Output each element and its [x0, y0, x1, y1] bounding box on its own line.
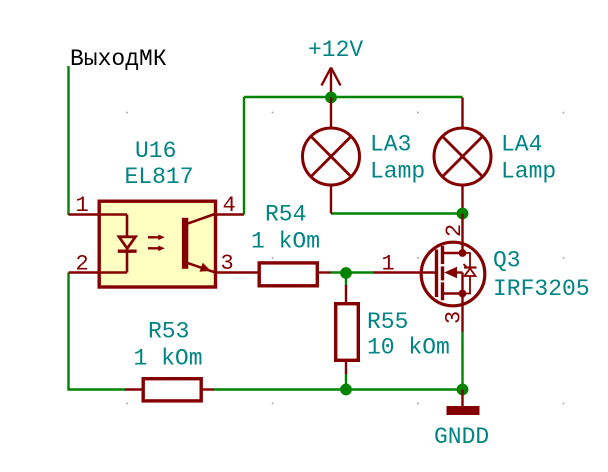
- U16 coupling arrow 2: [148, 246, 165, 252]
- resistor R54: [259, 263, 317, 286]
- U16 pin 4: [215, 213, 244, 215]
- svg-text:3: 3: [221, 251, 234, 276]
- optocoupler U16 body: [99, 201, 215, 287]
- Q3 gate pin: [374, 271, 437, 273]
- U16 pin 2: [69, 271, 128, 273]
- Q3 body diode: [463, 253, 477, 294]
- svg-text:1: 1: [76, 193, 89, 218]
- lamp LA4: [434, 128, 491, 185]
- U16 LED triangle: [119, 237, 136, 249]
- svg-text:Q3: Q3: [493, 248, 521, 274]
- lamp LA3 pins: [330, 98, 332, 129]
- svg-text:U16: U16: [135, 138, 176, 164]
- wire R54 to gate: [330, 271, 374, 273]
- resistor R53: [143, 379, 201, 401]
- svg-text:IRF3205: IRF3205: [493, 276, 590, 302]
- +12V power symbol: [322, 68, 341, 98]
- svg-text:Lamp: Lamp: [501, 159, 556, 185]
- U16 pin 3: [215, 271, 258, 273]
- transistor Q3 circle: [421, 242, 485, 306]
- R55 bottom pin: [345, 361, 347, 374]
- svg-text:R53: R53: [148, 319, 189, 345]
- Q3 source arrow: [444, 267, 457, 278]
- R53 left pin: [125, 388, 142, 390]
- junction at +12V: [325, 92, 337, 104]
- svg-text:R54: R54: [265, 202, 306, 228]
- Q3 source tap: [444, 292, 463, 294]
- R54 right pin: [318, 271, 331, 273]
- svg-text:EL817: EL817: [125, 164, 194, 190]
- U16 LED cathode wire: [126, 251, 129, 273]
- svg-text:2: 2: [442, 224, 467, 237]
- ground bar GNDD: [447, 406, 480, 415]
- svg-text:R55: R55: [367, 309, 408, 335]
- svg-text:4: 4: [223, 193, 236, 218]
- wire U16 pin 4 up: [243, 97, 245, 215]
- U16 emitter arrow: [200, 263, 212, 272]
- wire Q3 source to ground rail: [461, 331, 463, 390]
- lamp LA3: [303, 128, 360, 185]
- Q3 drain tap: [444, 252, 463, 254]
- Q3 drain pin: [461, 214, 463, 254]
- svg-text:2: 2: [76, 252, 89, 277]
- U16 emitter diagonal: [187, 263, 215, 273]
- U16 pin 1: [69, 213, 128, 215]
- junction ground: [457, 384, 469, 396]
- svg-text:10 kOm: 10 kOm: [367, 335, 450, 361]
- wire from U16 pin 2 down to R53 row: [67, 273, 69, 390]
- R53 right pin: [202, 388, 214, 390]
- svg-text:3: 3: [442, 311, 467, 324]
- junction R55 top: [340, 267, 352, 279]
- svg-text:GNDD: GNDD: [434, 424, 489, 450]
- wire R53 to GNDD junction: [214, 388, 463, 390]
- resistor R55: [336, 304, 359, 361]
- Q3 channel bar middle: [441, 266, 444, 280]
- junction R55 bottom: [340, 384, 352, 396]
- svg-text:1 kOm: 1 kOm: [134, 346, 203, 372]
- svg-text:LA3: LA3: [370, 132, 411, 158]
- Q3 channel bar bottom: [441, 282, 444, 300]
- svg-text:ВыходМК: ВыходМК: [70, 46, 167, 72]
- lamp LA4 pins: [461, 98, 463, 129]
- U16 collector diagonal: [187, 214, 215, 224]
- ground stub: [461, 390, 463, 407]
- wire top +12V rail: [244, 96, 463, 98]
- wire R55 bottom stub: [345, 374, 347, 390]
- svg-text:LA4: LA4: [501, 132, 542, 158]
- wire from label to U16 pin 1: [67, 66, 69, 215]
- svg-text:+12V: +12V: [308, 37, 363, 63]
- U16 LED cathode bar: [118, 249, 137, 252]
- Q3 channel bar top: [441, 246, 444, 264]
- Q3 source pin: [461, 294, 463, 332]
- svg-text:Lamp: Lamp: [370, 159, 425, 185]
- U16 LED anode wire: [126, 215, 129, 238]
- U16 coupling arrow 1: [148, 235, 165, 241]
- U16 phototransistor base bar: [182, 218, 188, 269]
- Q3 gate bar: [435, 250, 438, 298]
- wire lamp bottoms row: [331, 212, 463, 214]
- R55 top pin: [345, 285, 347, 303]
- wire R55 top stub: [345, 273, 347, 286]
- junction lamps bottom: [457, 208, 469, 220]
- svg-text:1 kOm: 1 kOm: [251, 229, 320, 255]
- grid dots: [126, 112, 564, 405]
- wire bottom left to R53: [67, 388, 125, 390]
